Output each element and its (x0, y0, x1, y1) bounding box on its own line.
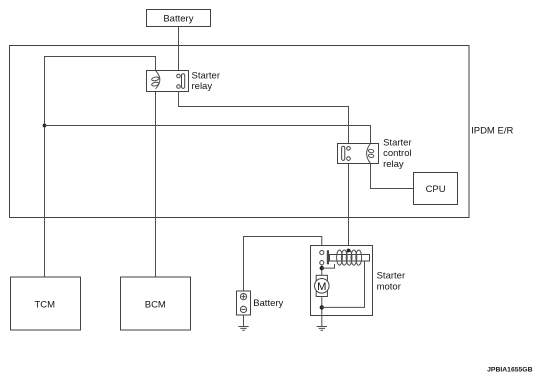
starter motor contact circles (320, 251, 324, 265)
wire battery (lower) to starter motor contact (244, 237, 322, 292)
svg-text:TCM: TCM (35, 300, 56, 311)
wire motor to ground (321, 297, 323, 327)
wire starter control relay coil to CPU (371, 164, 414, 189)
junction node solenoid top (347, 249, 351, 253)
svg-text:CPU: CPU (426, 184, 446, 195)
wire contact to motor (321, 265, 323, 276)
battery (lower) symbol (237, 291, 251, 315)
wire starter control relay contact to starter motor solenoid (348, 160, 350, 250)
svg-text:Battery: Battery (163, 13, 193, 24)
motor M symbol (315, 275, 330, 296)
wire junction to solenoid coil (322, 264, 335, 268)
IPDM E/R enclosure (10, 46, 470, 218)
junction node TCM net (43, 124, 47, 128)
wire motor return to solenoid body (322, 261, 365, 307)
wire TCM net to starter control relay coil (45, 126, 371, 144)
starter motor M1 (311, 246, 373, 316)
junction node contact/coil (320, 266, 324, 270)
svg-text:IPDM E/R: IPDM E/R (471, 126, 513, 137)
svg-text:BCM: BCM (145, 300, 166, 311)
junction node motor return (320, 305, 324, 309)
svg-text:Battery: Battery (253, 298, 283, 309)
battery box (top) (147, 10, 211, 27)
solenoid coil (337, 250, 362, 265)
wire starter relay contact to starter control relay contact (179, 88, 349, 146)
wire battery (top) to starter relay contact (178, 27, 180, 75)
solenoid plunger body (330, 255, 370, 262)
TCM box (11, 277, 81, 330)
ground under starter motor (317, 327, 327, 331)
solenoid plunger bar (327, 250, 329, 264)
wire battery (lower) to ground (243, 315, 245, 327)
svg-text:M: M (317, 281, 326, 293)
svg-text:Startermotor: Startermotor (377, 271, 406, 293)
CPU box (414, 173, 458, 205)
BCM box (121, 277, 191, 330)
ground under battery (lower) (238, 327, 248, 331)
svg-text:JPBIA1655GB: JPBIA1655GB (487, 366, 532, 373)
starter control relay K2 (338, 144, 379, 164)
starter relay K1 (147, 71, 189, 92)
wire starter relay coil bottom to BCM (155, 89, 157, 277)
wire starter relay coil top / TCM net (45, 57, 156, 278)
